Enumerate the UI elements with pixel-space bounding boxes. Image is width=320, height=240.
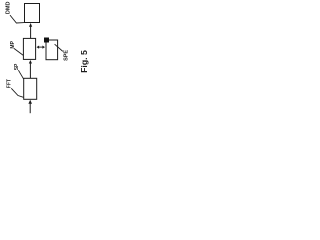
label SPE	[63, 50, 69, 61]
double-headed wire between MP and SPE	[37, 46, 46, 49]
filled corner square on SPE box	[44, 38, 49, 43]
input wire into FFT with arrowhead	[28, 100, 32, 113]
caption Fig. 5	[79, 50, 89, 73]
leader line from SPE box to label SPE	[55, 44, 63, 51]
leader line from label MP to middle box	[14, 48, 23, 55]
label DMD	[5, 2, 11, 15]
block SPE (right box)	[46, 40, 58, 60]
label FFT	[6, 79, 12, 88]
svg-text:FFT: FFT	[6, 79, 12, 88]
block DMD (top box)	[25, 4, 40, 23]
svg-text:SPE: SPE	[63, 50, 69, 61]
leader line from label FFT to bottom box	[11, 88, 23, 97]
svg-text:MP: MP	[10, 40, 16, 48]
wire FFT to MP with arrowhead	[29, 60, 32, 78]
leader line from label SP to FFT box top corner	[18, 70, 23, 79]
leader line from label DMD to top box corner	[10, 15, 24, 23]
label SP	[14, 63, 20, 70]
svg-text:DMD: DMD	[5, 2, 11, 15]
block MP (middle box)	[23, 38, 35, 59]
label MP	[10, 40, 16, 48]
block FFT (bottom box)	[24, 78, 37, 99]
wire MP to DMD with arrowhead	[29, 23, 32, 38]
svg-text:SP: SP	[14, 63, 20, 70]
svg-text:Fig. 5: Fig. 5	[79, 50, 89, 73]
